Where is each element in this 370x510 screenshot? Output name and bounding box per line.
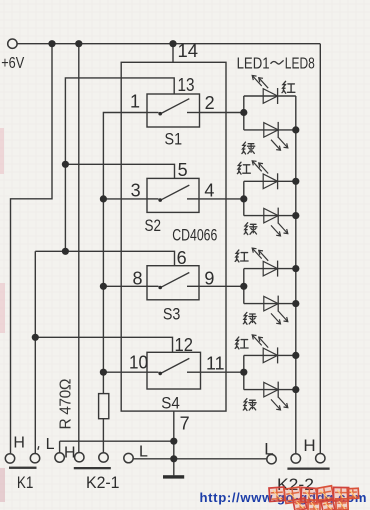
svg-text:S4: S4 [161, 394, 180, 413]
svg-text:6: 6 [177, 248, 187, 268]
svg-text:S3: S3 [163, 304, 181, 323]
svg-text:5: 5 [178, 160, 188, 180]
svg-text:1: 1 [130, 92, 140, 112]
svg-text:H: H [64, 444, 76, 461]
svg-text:K1: K1 [17, 473, 34, 492]
svg-text:13: 13 [178, 75, 195, 95]
svg-text:S1: S1 [165, 129, 183, 148]
svg-text:14: 14 [178, 41, 199, 61]
svg-text:H: H [303, 436, 315, 455]
svg-text:K2-1: K2-1 [86, 473, 120, 492]
svg-text:2: 2 [205, 93, 215, 113]
svg-text:L: L [46, 436, 55, 453]
svg-text:L: L [264, 439, 273, 458]
svg-text:9: 9 [204, 269, 214, 289]
svg-text:CD4066: CD4066 [172, 226, 217, 245]
svg-text:L: L [139, 444, 148, 461]
svg-text:LED1: LED1 [237, 56, 270, 73]
svg-text:+6V: +6V [1, 55, 24, 72]
svg-text:7: 7 [180, 413, 190, 433]
svg-text:11: 11 [206, 354, 225, 374]
svg-text:H: H [13, 434, 25, 451]
svg-text:10: 10 [129, 352, 148, 372]
svg-text:12: 12 [175, 335, 194, 355]
svg-text:LED8: LED8 [285, 56, 315, 73]
svg-text:S2: S2 [145, 216, 162, 235]
svg-text:3: 3 [131, 181, 141, 201]
svg-text:R 470Ω: R 470Ω [58, 379, 75, 430]
svg-text:4: 4 [204, 181, 214, 201]
svg-text:8: 8 [132, 269, 142, 289]
